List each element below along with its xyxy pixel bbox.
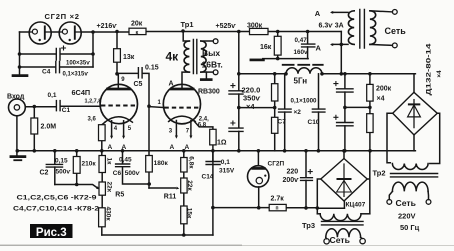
svg-text:0,1: 0,1 bbox=[48, 92, 57, 99]
svg-text:А: А bbox=[185, 144, 190, 151]
svg-text:20к: 20к bbox=[131, 21, 143, 28]
svg-text:Сеть: Сеть bbox=[396, 198, 416, 208]
svg-text:А: А bbox=[316, 44, 322, 53]
svg-text:1,2,7,8: 1,2,7,8 bbox=[85, 98, 102, 104]
svg-text:200к: 200к bbox=[376, 86, 392, 93]
svg-text:160ѵ: 160ѵ bbox=[294, 49, 310, 56]
svg-text:С4,С7,С10,С14 -К78-2: С4,С7,С10,С14 -К78-2 bbox=[13, 206, 99, 213]
svg-text:15к: 15к bbox=[186, 208, 193, 219]
svg-text:СГ2П ×2: СГ2П ×2 bbox=[45, 12, 80, 21]
svg-text:А: А bbox=[122, 144, 127, 151]
svg-text:2.0М: 2.0М bbox=[41, 124, 57, 131]
svg-text:3,6: 3,6 bbox=[88, 117, 97, 123]
svg-text:Сеть: Сеть bbox=[385, 26, 407, 36]
svg-text:220V: 220V bbox=[398, 211, 416, 220]
svg-text:Тр2: Тр2 bbox=[373, 169, 386, 178]
svg-text:210к: 210к bbox=[82, 161, 97, 168]
svg-text:13к: 13к bbox=[123, 54, 135, 61]
svg-text:5Гн: 5Гн bbox=[294, 77, 308, 86]
svg-text:Д132-80-14: Д132-80-14 bbox=[426, 43, 433, 96]
svg-text:1к: 1к bbox=[105, 158, 112, 166]
svg-text:С1: С1 bbox=[62, 107, 71, 114]
svg-text:0,1×315ѵ: 0,1×315ѵ bbox=[63, 72, 89, 78]
svg-text:С1,С2,С5,С6 -К72-9: С1,С2,С5,С6 -К72-9 bbox=[17, 194, 97, 201]
svg-text:430к: 430к bbox=[104, 207, 111, 222]
svg-text:300к: 300к bbox=[247, 23, 263, 30]
svg-text:200ѵ: 200ѵ bbox=[283, 177, 300, 184]
svg-text:Тр3: Тр3 bbox=[302, 221, 315, 230]
svg-text:16к: 16к bbox=[260, 44, 272, 51]
svg-text:6,8к: 6,8к bbox=[187, 156, 194, 169]
svg-text:+216ѵ: +216ѵ bbox=[97, 23, 118, 30]
svg-text:50 Гц: 50 Гц bbox=[400, 223, 420, 232]
svg-text:220: 220 bbox=[287, 169, 299, 176]
svg-text:Вход: Вход bbox=[7, 93, 25, 100]
svg-text:КЦ407: КЦ407 bbox=[346, 202, 366, 209]
svg-text:16Вт.: 16Вт. bbox=[202, 59, 223, 69]
svg-text:Вых: Вых bbox=[202, 48, 220, 58]
svg-text:Рис.3: Рис.3 bbox=[36, 227, 67, 239]
svg-text:А: А bbox=[170, 144, 175, 151]
svg-text:6,8: 6,8 bbox=[198, 123, 207, 129]
svg-text:500ѵ: 500ѵ bbox=[56, 169, 72, 176]
svg-text:С7: С7 bbox=[278, 119, 287, 126]
svg-text:0,1×1000: 0,1×1000 bbox=[291, 98, 318, 105]
svg-text:С6: С6 bbox=[113, 170, 122, 177]
svg-text:С5: С5 bbox=[134, 81, 143, 88]
svg-text:0,47: 0,47 bbox=[295, 37, 308, 44]
svg-text:+525ѵ: +525ѵ bbox=[216, 23, 237, 30]
svg-text:С10: С10 bbox=[308, 119, 320, 126]
svg-text:С2: С2 bbox=[40, 169, 49, 176]
svg-text:0,1: 0,1 bbox=[221, 159, 230, 166]
svg-text:100×35ѵ: 100×35ѵ bbox=[66, 61, 90, 67]
svg-text:×2: ×2 bbox=[294, 109, 302, 116]
svg-text:315V: 315V bbox=[219, 167, 235, 174]
svg-text:Сеть: Сеть bbox=[330, 235, 350, 245]
svg-text:1Ω: 1Ω bbox=[217, 139, 227, 146]
svg-text:п: п bbox=[276, 206, 279, 212]
svg-text:2.7к: 2.7к bbox=[271, 195, 285, 202]
svg-text:22к: 22к bbox=[186, 180, 193, 191]
svg-text:0,15: 0,15 bbox=[55, 157, 68, 164]
svg-text:×4: ×4 bbox=[246, 102, 255, 111]
svg-text:500ѵ: 500ѵ bbox=[125, 170, 141, 177]
svg-text:×4: ×4 bbox=[377, 96, 385, 103]
svg-text:А: А bbox=[169, 81, 174, 88]
svg-text:А: А bbox=[108, 144, 113, 151]
svg-text:к: к bbox=[136, 30, 139, 36]
svg-text:C14: C14 bbox=[202, 174, 214, 181]
svg-text:0,45: 0,45 bbox=[119, 157, 132, 164]
svg-text:22к: 22к bbox=[106, 182, 113, 193]
svg-text:6.3ѵ 3А: 6.3ѵ 3А bbox=[319, 22, 344, 29]
svg-text:180к: 180к bbox=[154, 160, 169, 167]
svg-text:А: А bbox=[315, 9, 321, 18]
svg-text:0.15: 0.15 bbox=[145, 65, 159, 72]
svg-text:Тр1: Тр1 bbox=[181, 20, 194, 29]
svg-text:СГ2П: СГ2П bbox=[268, 160, 285, 167]
svg-text:С4: С4 bbox=[42, 69, 51, 76]
svg-text:6С4П: 6С4П bbox=[72, 88, 91, 97]
svg-text:R5: R5 bbox=[115, 192, 124, 199]
svg-text:R11: R11 bbox=[164, 193, 177, 200]
svg-text:4к: 4к bbox=[166, 50, 180, 64]
svg-text:RB300: RB300 bbox=[198, 89, 220, 96]
svg-text:×4: ×4 bbox=[436, 70, 443, 78]
